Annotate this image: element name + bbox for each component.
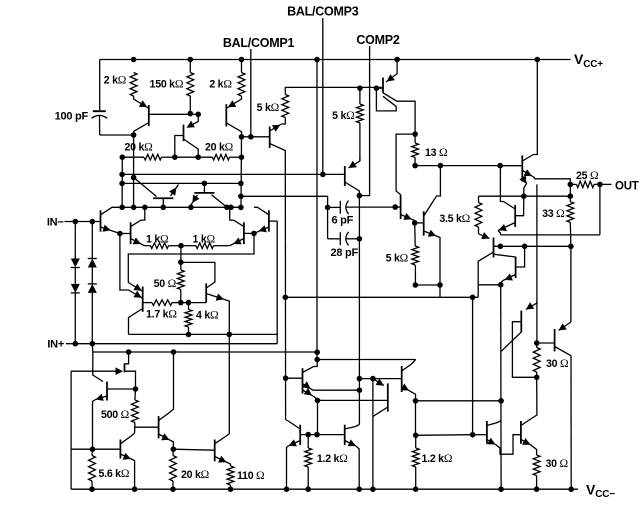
svg-text:BAL/COMP1: BAL/COMP1 [223, 36, 295, 50]
transistor Qc PNP bal/comp3 [344, 166, 346, 186]
node Tu base strap [470, 432, 476, 438]
resistor R9 50 ohm [177, 270, 184, 290]
transistor Qw PNP [520, 311, 522, 333]
node 1k centre tap [178, 243, 184, 249]
wire 13 ohm feed [414, 101, 416, 134]
wire base row y88 [317, 86, 383, 88]
node Tg-Th base node [133, 386, 139, 392]
node rail 110 [228, 486, 234, 492]
node rail 1.2k left [305, 486, 311, 492]
resistor R8 1 k right [196, 243, 214, 249]
capacitor C2 6 pF [328, 206, 341, 208]
node junction top rail / 2k left [131, 57, 137, 63]
wire OUT down link [599, 184, 601, 235]
svg-text:CC+: CC+ [583, 59, 603, 70]
wire x440 link [439, 285, 441, 297]
svg-text:6 pF: 6 pF [332, 214, 354, 226]
node 4k bottom [186, 332, 192, 338]
node Qe2 emitter 5k [437, 282, 443, 288]
node OUT [597, 182, 603, 188]
wire IN+ riser [276, 221, 278, 344]
wire top supply rail VCC+ [100, 59, 571, 61]
node y183 left end [119, 181, 125, 187]
node 50 bottom [178, 300, 184, 306]
node Tj emitter 20k [171, 446, 177, 452]
node bus T2 collector [224, 205, 230, 211]
resistor R18 30 ohm upper [533, 348, 540, 373]
node y196 x570 [568, 193, 574, 199]
node y183 right end [238, 181, 244, 187]
resistor R25 30 ohm lower [533, 455, 540, 476]
node rail 1.2k right [413, 486, 419, 492]
wire x501 to rail [500, 285, 502, 489]
wire 20k rail middle [175, 156, 213, 158]
transistor Tt NPN [344, 425, 346, 445]
node y352 x317 [314, 349, 320, 355]
resistor R20 5.6 k [89, 456, 96, 482]
resistor R23 1.2 k left [305, 448, 312, 467]
node rail 30 lower [534, 486, 540, 492]
wire left corner down to 100pF [99, 60, 101, 111]
wire input stage bus [116, 206, 241, 208]
node 20k rail left end [120, 154, 126, 160]
transistor Qq current limit [479, 234, 490, 239]
node IN- diode column 2 [90, 219, 96, 225]
node IN+ diode 1 [73, 341, 79, 347]
svg-text:4 kΩ: 4 kΩ [196, 309, 219, 322]
wire COMP2 dropper [359, 46, 369, 196]
svg-text:110 Ω: 110 Ω [237, 469, 265, 482]
node box bottom Qf emitter [227, 332, 233, 338]
node 25 ohm left [568, 182, 574, 188]
wire x359 chain [358, 196, 360, 425]
svg-text:COMP2: COMP2 [356, 33, 400, 47]
node rail 20k [170, 486, 176, 492]
svg-text:OUT: OUT [615, 181, 639, 193]
resistor R13 13 ohm [412, 143, 419, 158]
svg-text:33 Ω: 33 Ω [542, 207, 565, 220]
node junction top rail / 150k [188, 57, 194, 63]
svg-text:100 pF: 100 pF [55, 110, 89, 122]
node Q2in emitter junction [251, 231, 257, 237]
node y246 x500 [498, 244, 504, 250]
resistor R16 33 ohm [567, 202, 574, 223]
wire Q3 base link [242, 136, 270, 138]
transistor Q2 PNP top-right [225, 104, 227, 126]
transistor Tp1 dual emitter PNP [302, 368, 304, 393]
svg-text:13 Ω: 13 Ω [425, 146, 448, 159]
node 5k mid top [357, 85, 363, 91]
transistor Tm PNP [401, 366, 403, 392]
node y359 x317 [314, 357, 320, 363]
svg-text:2 kΩ: 2 kΩ [104, 74, 127, 87]
node Tp1 E1 x359 [357, 387, 363, 393]
transistor Tv NPN [520, 421, 522, 444]
node y246 x570 [568, 244, 574, 250]
wire Tn collector chain x372 [372, 379, 374, 490]
wire x133 down through 20k rail to bus [133, 135, 135, 207]
node BAL/COMP3 junction [320, 172, 326, 178]
svg-text:20 kΩ: 20 kΩ [205, 141, 234, 154]
wire Q3 collector bus x285 [284, 155, 286, 420]
node IN- diode column 1 [73, 219, 79, 225]
node rail x501 [498, 486, 504, 492]
wire box bottom [129, 333, 278, 335]
node 20k rail right end [239, 154, 245, 160]
node rail Tn collector [370, 486, 376, 492]
wire emitter to Q3in [120, 233, 131, 235]
wire Tj base [135, 426, 159, 428]
svg-text:5 kΩ: 5 kΩ [332, 109, 355, 122]
node junction top rail / 2k right [239, 57, 245, 63]
transistor Qz composite PNP [386, 60, 397, 83]
node junction top rail / output collector [535, 57, 541, 63]
node Qd emitter junction [412, 220, 418, 226]
wire 13 ohm elbow to Qd [396, 134, 415, 195]
node y297 x472 strap [470, 295, 476, 301]
wire IN+ rail [66, 343, 277, 345]
node Tm emitter branch [413, 398, 419, 404]
svg-text:BAL/COMP3: BAL/COMP3 [287, 5, 359, 19]
node 5k driver bottom corner [413, 282, 419, 288]
resistor R7 1 k left [151, 243, 169, 249]
svg-text:CC−: CC− [595, 489, 615, 500]
svg-text:20 kΩ: 20 kΩ [181, 468, 210, 481]
resistor R11 4 k [185, 310, 192, 328]
transistor Qf NPN 4k [205, 283, 207, 302]
wire x571 lower [570, 356, 572, 490]
wire y196 output rail [479, 195, 571, 197]
resistor R19 500 ohm [132, 400, 139, 423]
node y174 left end [119, 172, 125, 178]
transistor Q1 PNP top-left [148, 105, 150, 126]
wire row A right link [478, 284, 501, 286]
wire y359 row [317, 359, 416, 361]
transistor Q3in inner left [130, 222, 132, 244]
node Qc collector COMP2 [357, 193, 363, 199]
svg-text:5 kΩ: 5 kΩ [257, 101, 280, 114]
wire x571 upper [570, 246, 572, 322]
resistor R12 5 k mid [357, 104, 364, 123]
transistor Q1in input NPN left [100, 210, 102, 231]
wire Qe2 base link [415, 222, 424, 224]
resistor R6 5 k input [282, 95, 289, 118]
node 13 ohm bottom [412, 163, 418, 169]
svg-text:500 Ω: 500 Ω [101, 408, 130, 421]
node x501 y400 [498, 398, 504, 404]
node 50 ohm top [178, 259, 184, 265]
resistor R17 3.5 k [475, 203, 482, 228]
svg-text:1.2 kΩ: 1.2 kΩ [317, 452, 348, 465]
node Qm base on rail [172, 154, 178, 160]
wire x122 dropper [121, 157, 123, 207]
resistor R22 110 ohm [227, 466, 234, 485]
transistor Ti NPN [119, 440, 121, 459]
node T2 base junction [202, 181, 208, 187]
transistor Th PNP [106, 382, 108, 401]
node 28pF right [357, 236, 363, 242]
transistor Qpnp output PNP [514, 205, 516, 227]
wire BAL/COMP3 dropper [322, 18, 324, 174]
node rail Tt emitter [356, 486, 362, 492]
transistor Qd driver NPN [400, 195, 402, 219]
node y297 on x285 bus [283, 295, 289, 301]
wire x537 long [536, 184, 538, 343]
resistor R1 2 k left [130, 73, 137, 97]
node bus Q4 collector [228, 205, 234, 211]
node rail x571 [568, 486, 574, 492]
capacitor C1 100 pF [93, 110, 106, 112]
transistor Qe2 second driver NPN [423, 211, 425, 235]
node Q1in emitter junction [117, 231, 123, 237]
wire Tk base [173, 449, 214, 450]
svg-text:28 pF: 28 pF [331, 247, 359, 259]
node bus right end [238, 205, 244, 211]
resistor R10 1.7 k [152, 300, 172, 306]
wire bottom supply rail VCC- [71, 488, 578, 490]
diode D3 right upper [91, 222, 93, 259]
node bus x133 [131, 205, 137, 211]
wire Ti base [93, 448, 121, 450]
node Qr emitter junction [498, 282, 504, 288]
transistor Tn PNP [373, 379, 384, 386]
transistor Qtop output NPN [521, 155, 523, 181]
node composite base y88 [374, 85, 380, 91]
wire y196 row to 6pF [241, 196, 328, 207]
transistor Qm diode-connected PNP [188, 114, 198, 127]
wire IN- lead [65, 221, 101, 223]
node junction top rail / x317 dropper [314, 57, 320, 63]
node x317 1.2k junction [314, 432, 320, 438]
node y165 x500 [497, 163, 503, 169]
wire IN+ to y352 [91, 344, 94, 352]
node Qe2 collector rail [438, 163, 444, 169]
node y352 x173 [171, 349, 177, 355]
transistor Q3 NPN [269, 127, 271, 149]
node bus T2 emitter [188, 205, 194, 211]
node 150k bottom on base rail [188, 111, 194, 117]
node junction top rail / composite PNP emitter [394, 57, 400, 63]
wire 1.2k right to Tu [416, 434, 473, 437]
wire x71 tap [71, 448, 92, 450]
wire y297 row [285, 296, 478, 298]
wire Tm base row [359, 378, 401, 380]
resistor R5 20 k right [213, 154, 230, 160]
node y196 start [238, 194, 244, 200]
resistor R2 150 k [187, 73, 194, 97]
wire Tu base [473, 434, 487, 436]
node Tp1 base [283, 375, 289, 381]
wire y174 row [122, 173, 345, 175]
node Th emitter 5.6k [90, 446, 96, 452]
svg-text:50 Ω: 50 Ω [154, 277, 177, 290]
diode D2 left lower [74, 268, 76, 284]
svg-text:5.6 kΩ: 5.6 kΩ [99, 467, 130, 480]
node rail Ts emitter [284, 486, 290, 492]
node x359 y378 [357, 376, 363, 382]
node collector Q1 / cap node [131, 132, 137, 138]
capacitor C3 28 pF [328, 238, 341, 240]
node 1.2k right top [413, 433, 419, 439]
wire x472 strap [472, 297, 474, 434]
node rail Ti emitter [132, 486, 138, 492]
node Qd base 6pF [392, 204, 398, 210]
wire x93 down to Th [93, 352, 103, 382]
node 13 ohm top [412, 131, 418, 137]
wire OUT stub [600, 183, 612, 185]
transistor T2 rotated NPN [194, 192, 214, 194]
resistor R4 20 k left [144, 154, 162, 160]
wire BAL/COMP1 dropper [250, 49, 252, 137]
wire x241 dropper [240, 137, 243, 208]
node T1 collector on x133 [131, 175, 137, 181]
svg-text:1 kΩ: 1 kΩ [146, 232, 169, 245]
node 30 upper bottom [534, 375, 540, 381]
svg-text:5 kΩ: 5 kΩ [386, 252, 409, 265]
node x372 y378 [370, 376, 376, 382]
wire y352 row [93, 351, 317, 353]
node 1.2k left top [305, 432, 311, 438]
svg-text:1.7 kΩ: 1.7 kΩ [146, 308, 177, 321]
node 6pF left [325, 205, 331, 211]
wire 33 top link [569, 184, 571, 196]
node bus x122 [119, 205, 125, 211]
transistor Qr [515, 257, 517, 278]
transistor Tj NPN [158, 416, 160, 438]
transistor Qe dual emitter PNP [142, 287, 144, 312]
transistor Q4in inner right [243, 222, 245, 244]
node rail 5.6k [89, 486, 95, 492]
resistor R24 1.2 k right [412, 448, 419, 467]
node Tp1 E2 Tn base [315, 398, 321, 404]
wire 1k tap down [180, 246, 182, 263]
node IN+ diode 2 [90, 341, 96, 347]
node y246 x524 [522, 244, 528, 250]
transistor Tu NPN [486, 421, 488, 444]
wire left rail x71 [70, 371, 72, 489]
svg-text:30 Ω: 30 Ω [546, 357, 569, 370]
transistor Tk NPN [214, 440, 216, 462]
wire emitter to Q4in [244, 232, 254, 234]
resistor R14 5 k driver [412, 246, 419, 265]
wire box top [128, 233, 254, 282]
svg-text:25 Ω: 25 Ω [576, 169, 599, 182]
transistor Ts NPN [299, 425, 301, 445]
resistor R15 25 ohm [577, 181, 595, 187]
wire E1 to 25 ohm [534, 179, 570, 185]
node 4k top [186, 300, 192, 306]
svg-text:3.5 kΩ: 3.5 kΩ [439, 212, 470, 225]
svg-text:IN+: IN+ [47, 338, 64, 350]
node y352 x128 [126, 349, 132, 355]
wire y400 link [416, 400, 502, 402]
diode D1 left upper [74, 222, 76, 259]
svg-text:30 Ω: 30 Ω [546, 457, 569, 470]
node Qm collector on rail [195, 154, 201, 160]
svg-text:IN−: IN− [47, 216, 64, 228]
transistor Tg diode PNP [71, 370, 117, 372]
node Q2 collector [239, 134, 245, 140]
node y196 x523 [521, 193, 527, 199]
transistor Q2in input NPN right [268, 210, 270, 231]
node 30 upper top [534, 340, 540, 346]
wire 28pF drop [327, 207, 329, 238]
svg-text:1 kΩ: 1 kΩ [193, 232, 216, 245]
svg-text:1.2 kΩ: 1.2 kΩ [422, 452, 453, 465]
node bus x144 [142, 205, 148, 211]
node base rail / Qm emitter [195, 112, 201, 118]
transistor T1 rotated NPN [153, 197, 173, 199]
resistor R21 20 k bottom [170, 456, 177, 482]
diode D4 right lower [91, 268, 93, 284]
wire x317 long dropper from top rail [316, 60, 318, 360]
svg-text:20 kΩ: 20 kΩ [125, 141, 154, 154]
wire y234 output emitter [500, 234, 600, 236]
transistor Qx PNP [554, 329, 556, 351]
svg-text:2 kΩ: 2 kΩ [209, 77, 232, 90]
node BAL/COMP1 join [248, 134, 254, 140]
wire 50-4k link [181, 302, 189, 304]
resistor R3 2 k right [238, 73, 245, 97]
node bus T1 base [161, 205, 167, 211]
svg-text:150 kΩ: 150 kΩ [150, 77, 184, 90]
wire y165 rail [415, 165, 522, 167]
wire y183 row [122, 182, 241, 184]
